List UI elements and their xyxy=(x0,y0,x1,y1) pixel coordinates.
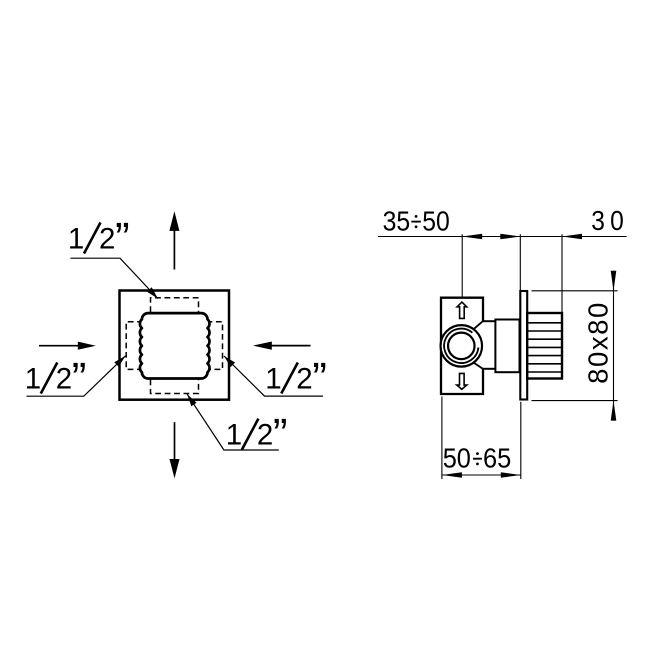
extension line wall plate xyxy=(519,234,521,291)
neck step large xyxy=(495,320,519,373)
leader left xyxy=(27,356,126,396)
boss middle arc xyxy=(444,329,478,363)
dim text 50÷65 xyxy=(443,442,512,474)
chamfer bottom xyxy=(474,363,483,369)
arrowhead 80x80 top xyxy=(611,271,617,291)
label 1/2" right xyxy=(265,354,327,403)
bore inner circle xyxy=(448,333,475,360)
knob body xyxy=(527,313,562,379)
arrowhead 30 xyxy=(562,234,582,240)
flow arrow up (outlet top) xyxy=(173,230,175,270)
dashed left connection wing xyxy=(126,322,143,370)
arrowhead 50÷65 left xyxy=(442,472,462,478)
wall flange plate xyxy=(520,291,527,400)
hollow arrow up xyxy=(457,302,467,318)
dimension line 50÷65 xyxy=(442,474,521,476)
cartridge scalloped square xyxy=(140,313,210,378)
dashed bottom connection tab xyxy=(151,380,199,394)
extension line 50÷65 left xyxy=(441,397,443,480)
extension line 80x80 top xyxy=(532,290,618,292)
hollow arrow down xyxy=(457,373,467,389)
svg-text:50: 50 xyxy=(443,442,471,474)
label 1/2" bottom xyxy=(226,410,288,459)
dimension line 80x80 xyxy=(613,271,615,421)
neck step small xyxy=(483,320,495,322)
dashed right connection wing xyxy=(207,322,223,370)
knob ribs xyxy=(527,323,562,372)
outer square wall plate xyxy=(120,291,230,400)
extension line knob face xyxy=(561,234,563,312)
dim text 35÷50 xyxy=(383,205,450,237)
flow arrow down (outlet bottom) xyxy=(174,422,176,460)
chamfer top xyxy=(474,321,483,329)
arrowhead 35÷50 right xyxy=(500,234,520,240)
label 1/2" left xyxy=(25,354,87,403)
flow arrow right inlet xyxy=(271,345,311,347)
dashed top connection tab xyxy=(151,298,199,312)
svg-text:65: 65 xyxy=(483,442,511,474)
flow arrow left inlet xyxy=(39,345,79,347)
dimension line top xyxy=(378,236,627,238)
arrowhead 50÷65 right xyxy=(501,472,521,478)
svg-text:35: 35 xyxy=(383,205,411,237)
boss outer circle xyxy=(441,325,483,367)
svg-text:50: 50 xyxy=(422,205,450,237)
leader bottom xyxy=(187,394,279,450)
leader right xyxy=(224,356,323,396)
extension line body centre xyxy=(461,234,463,297)
label 1/2" top-left xyxy=(68,214,130,263)
svg-text:30: 30 xyxy=(591,205,629,237)
leader top-left xyxy=(70,258,157,298)
valve body xyxy=(441,298,483,394)
arrowhead 35÷50 left xyxy=(462,234,482,240)
extension line 80x80 bottom xyxy=(532,400,618,402)
svg-text:80x80: 80x80 xyxy=(583,301,614,384)
extension line 50÷65 right xyxy=(520,402,522,479)
arrowhead 80x80 bottom xyxy=(611,401,617,421)
